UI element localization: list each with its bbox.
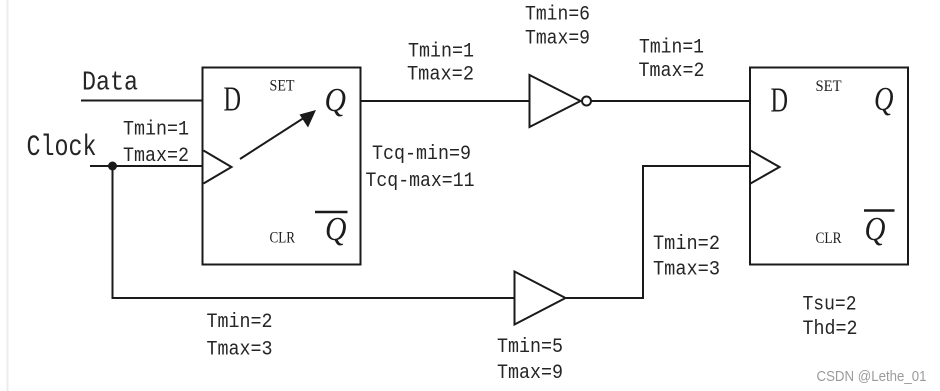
label Tmin=1 Tmax=2 (U1 output) [407, 41, 474, 87]
svg-text:CSDN @Lethe_01: CSDN @Lethe_01 [817, 369, 927, 385]
flip-flop U2 body [750, 68, 908, 265]
wire Clock to FF1 CLK input [90, 165, 203, 167]
label Tmin=1 Tmax=2 (clock to FF1) [123, 119, 189, 169]
wire U1 Q output to inverter [361, 100, 530, 102]
svg-text:Tmin=1: Tmin=1 [408, 41, 474, 64]
label Tmin=2 Tmax=3 (bottom clock run) [207, 311, 273, 361]
svg-text:CLR: CLR [270, 229, 296, 246]
svg-text:Tmax=2: Tmax=2 [407, 64, 474, 87]
svg-text:SET: SET [270, 78, 295, 95]
svg-text:Q: Q [865, 211, 886, 248]
label Tsu=2 Thd=2 (FF2 setup/hold) [803, 293, 858, 341]
junction clock node [108, 162, 117, 171]
svg-text:Tmin=2: Tmin=2 [653, 233, 720, 256]
label Tcq-min=9 Tcq-max=11 [366, 143, 475, 193]
svg-text:Tmax=2: Tmax=2 [639, 60, 705, 83]
U1 clock-to-Q arrow [240, 110, 316, 159]
wire clock vertical drop [112, 166, 114, 298]
wire clock riser [642, 165, 644, 299]
svg-text:Q: Q [874, 81, 894, 118]
wire clock run to FF2 CLK [642, 165, 750, 167]
svg-text:Tmin=5: Tmin=5 [497, 336, 563, 359]
U2 pin Q-bar label [864, 211, 895, 249]
label Tmin=1 Tmax=2 (FF2 D input) [639, 37, 705, 84]
U2 clock input triangle [751, 151, 780, 184]
svg-text:Tmax=9: Tmax=9 [525, 28, 590, 51]
label Tmin=5 Tmax=9 (buffer) [497, 336, 563, 385]
wire clock bottom run to buffer [112, 297, 515, 299]
inverter G1 [530, 75, 592, 127]
svg-text:Tmin=2: Tmin=2 [207, 311, 273, 334]
svg-text:Q: Q [325, 82, 347, 119]
buffer B1 [515, 272, 566, 325]
svg-text:Thd=2: Thd=2 [803, 318, 858, 341]
svg-text:D: D [771, 81, 789, 120]
label Tmin=6 Tmax=9 (inverter) [525, 4, 590, 51]
svg-text:Tmax=3: Tmax=3 [653, 258, 720, 281]
svg-text:Tmin=1: Tmin=1 [123, 119, 189, 142]
svg-text:Clock: Clock [27, 131, 97, 165]
svg-text:Tmax=9: Tmax=9 [497, 362, 563, 385]
wire inverter output to FF2 D input [591, 100, 750, 102]
svg-text:Data: Data [82, 69, 138, 99]
U1 clock input triangle [204, 151, 232, 184]
label Tmin=2 Tmax=3 (FF2 clock) [653, 233, 720, 281]
svg-text:Tcq-min=9: Tcq-min=9 [372, 143, 471, 166]
svg-text:Tmin=6: Tmin=6 [525, 4, 590, 27]
svg-text:Tmax=2: Tmax=2 [123, 145, 189, 168]
svg-text:SET: SET [816, 78, 842, 95]
wire buffer output [566, 297, 644, 299]
svg-text:Tcq-max=11: Tcq-max=11 [366, 170, 475, 193]
svg-text:Q: Q [325, 211, 347, 248]
U1 pin Q-bar label [315, 211, 348, 248]
svg-text:D: D [224, 80, 242, 119]
svg-text:Tmax=3: Tmax=3 [207, 339, 273, 362]
wire Data to FF1 D input [81, 100, 203, 102]
svg-text:Tsu=2: Tsu=2 [803, 293, 857, 316]
svg-text:Tmin=1: Tmin=1 [639, 37, 704, 60]
svg-text:CLR: CLR [816, 230, 843, 247]
flip-flop U1 body [203, 68, 361, 265]
